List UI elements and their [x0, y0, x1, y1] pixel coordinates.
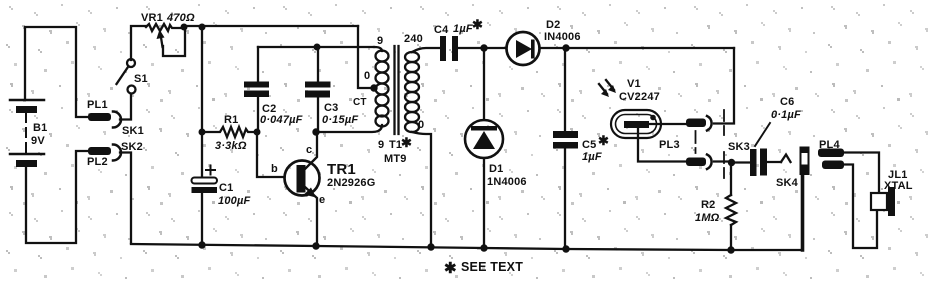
node D1 top — [480, 44, 487, 51]
wire SK1 to S1 — [120, 93, 131, 120]
SK4 tip contact — [781, 155, 791, 163]
capacitor C6 0.1uF — [731, 96, 801, 176]
svg-text:SK1: SK1 — [122, 125, 144, 137]
wire battery positive to PL1 — [25, 27, 88, 117]
neon lamp V1 CV2247 — [599, 78, 686, 162]
svg-text:C4: C4 — [434, 24, 449, 36]
svg-text:IN4006: IN4006 — [544, 31, 581, 43]
svg-text:XTAL: XTAL — [884, 180, 913, 192]
PL3 panel dashed line — [695, 131, 697, 153]
svg-text:D1: D1 — [489, 163, 503, 175]
svg-text:0: 0 — [418, 119, 424, 131]
svg-text:C6: C6 — [780, 96, 794, 108]
plug PL3 lower — [659, 139, 706, 166]
svg-text:✱: ✱ — [472, 17, 483, 32]
svg-text:PL3: PL3 — [659, 139, 680, 151]
svg-text:0·15µF: 0·15µF — [322, 114, 358, 126]
svg-text:240: 240 — [404, 33, 423, 45]
wire rail down to CT — [358, 26, 372, 88]
svg-text:R1: R1 — [224, 114, 238, 126]
transistor TR1 2N2926G — [271, 132, 376, 246]
svg-text:9V: 9V — [31, 135, 45, 147]
svg-text:S1: S1 — [134, 73, 148, 85]
svg-text:0·1µF: 0·1µF — [771, 109, 801, 121]
capacitor C3 0.15uF — [305, 47, 358, 132]
capacitor C1 100uF — [192, 132, 251, 245]
node R1 right / base — [254, 129, 261, 136]
diode D2 IN4006 — [507, 19, 581, 65]
resistor R2 1M — [695, 163, 736, 251]
wire PL4 tip to earpiece — [844, 153, 879, 194]
socket SK1 — [113, 112, 144, 138]
svg-text:PL4: PL4 — [819, 139, 840, 151]
node C3 top — [314, 44, 321, 51]
svg-text:✱: ✱ — [444, 260, 457, 277]
svg-text:SEE TEXT: SEE TEXT — [461, 260, 523, 274]
svg-text:V1: V1 — [627, 78, 641, 90]
svg-text:PL2: PL2 — [87, 156, 108, 168]
svg-text:TR1: TR1 — [327, 161, 356, 178]
wire x202 vertical — [201, 27, 203, 132]
svg-text:100µF: 100µF — [218, 195, 250, 207]
node VR1 wiper junction — [181, 24, 188, 31]
svg-text:VR1: VR1 — [141, 12, 163, 24]
wire S1 to VR1 — [131, 26, 146, 60]
svg-text:3·3kΩ: 3·3kΩ — [215, 140, 247, 152]
resistor R1 3.3k — [202, 114, 257, 152]
svg-text:b: b — [271, 163, 278, 175]
plug PL1 — [87, 99, 111, 121]
node T1 secondary ground — [427, 243, 434, 250]
svg-text:9: 9 — [377, 35, 383, 47]
SK3 panel dashed line — [723, 110, 725, 135]
svg-text:MT9: MT9 — [384, 153, 407, 165]
svg-text:1µF: 1µF — [582, 151, 602, 163]
socket SK4 — [776, 147, 810, 251]
svg-text:e: e — [319, 194, 325, 206]
node C3 bottom / collector — [312, 128, 319, 135]
node emitter ground — [312, 242, 319, 249]
wire SK2 to ground rail — [120, 153, 131, 244]
svg-text:SK2: SK2 — [121, 141, 143, 153]
earpiece JL1 XTAL — [871, 169, 913, 216]
node top rail x202 — [199, 24, 206, 31]
note SEE TEXT — [444, 260, 523, 277]
switch S1 — [117, 59, 148, 94]
svg-text:D2: D2 — [546, 19, 560, 31]
battery B1 — [10, 100, 47, 167]
svg-text:PL1: PL1 — [87, 99, 108, 111]
svg-text:470Ω: 470Ω — [166, 12, 195, 24]
node C5 ground — [562, 245, 569, 252]
wire battery negative to PL2 — [26, 151, 88, 243]
svg-text:R2: R2 — [701, 199, 715, 211]
node R1 left — [199, 129, 206, 136]
svg-text:1N4006: 1N4006 — [487, 176, 527, 188]
wire PL4 sleeve to earpiece — [844, 165, 877, 249]
socket SK3 upper — [707, 116, 712, 131]
svg-text:CV2247: CV2247 — [619, 91, 660, 103]
wire base — [257, 132, 285, 177]
capacitor C4 1uF — [434, 17, 505, 61]
svg-text:C5: C5 — [582, 139, 596, 151]
plug PL4 — [818, 139, 844, 169]
diode D1 1N4006 — [465, 48, 527, 248]
wire collector to T1 bottom — [316, 125, 382, 132]
svg-text:2N2926G: 2N2926G — [327, 177, 376, 189]
node SK3 lower junction — [728, 159, 735, 166]
plug PL2 — [87, 147, 111, 168]
svg-text:C1: C1 — [219, 182, 233, 194]
svg-text:0·047µF: 0·047µF — [260, 114, 303, 126]
svg-text:✱: ✱ — [598, 133, 609, 148]
svg-text:CT: CT — [353, 97, 367, 108]
svg-text:SK4: SK4 — [776, 177, 799, 189]
capacitor C5 1uF — [553, 48, 609, 249]
socket SK2 — [113, 141, 143, 161]
wire rail corner to SK3 top — [714, 48, 734, 124]
node CT tap — [370, 84, 377, 91]
node C5 top — [562, 44, 569, 51]
svg-text:0: 0 — [364, 70, 370, 82]
svg-text:B1: B1 — [33, 122, 47, 134]
wire ground rail — [131, 244, 801, 250]
plug PL3 upper — [686, 119, 706, 128]
svg-text:1MΩ: 1MΩ — [695, 212, 720, 224]
svg-text:C3: C3 — [324, 102, 338, 114]
wire top rail VR1 to transformer — [184, 25, 358, 27]
wire SK3 lower to junction — [714, 160, 731, 162]
node C1 ground — [198, 241, 205, 248]
wire top rail right — [566, 47, 734, 49]
svg-text:1µF: 1µF — [453, 23, 473, 35]
svg-text:9: 9 — [378, 139, 384, 151]
capacitor C2 0.047uF — [244, 47, 303, 132]
wire C2 top to transformer 9 — [258, 46, 374, 48]
svg-text:c: c — [306, 144, 312, 156]
node R2 ground — [727, 246, 734, 253]
node D1 ground — [480, 244, 487, 251]
socket SK3 lower — [707, 141, 750, 169]
svg-text:SK3: SK3 — [728, 141, 750, 153]
variable resistor VR1 470ohm — [141, 12, 195, 56]
svg-text:✱: ✱ — [401, 135, 412, 150]
transformer T1 MT9 — [353, 33, 440, 247]
